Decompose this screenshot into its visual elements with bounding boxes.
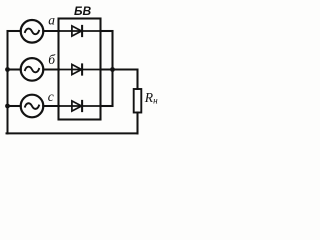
svg-text:с: с: [48, 89, 54, 104]
svg-text:БВ: БВ: [74, 4, 91, 18]
diode VD2: [59, 69, 101, 71]
wire diode VD3 output to cathode bus: [101, 105, 113, 107]
AC source Ga phase a: [21, 20, 44, 43]
wire phase c from bus to source: [8, 105, 21, 107]
wire diode VD1 output to cathode bus: [101, 30, 113, 32]
wire left neutral bus: [7, 31, 9, 133]
svg-text:а: а: [48, 12, 55, 27]
svg-text:б: б: [48, 52, 56, 67]
svg-text:Rн: Rн: [144, 90, 158, 106]
rectifier block BV box: [59, 19, 101, 120]
wire resistor bottom lead: [136, 113, 138, 134]
wire source b to block: [43, 68, 59, 70]
AC source Gb phase b: [21, 58, 44, 81]
wire source c to block: [43, 105, 59, 107]
diode VD3: [59, 105, 101, 107]
wire phase a from bus to source: [8, 30, 21, 32]
node junction on bus phase c: [5, 104, 10, 109]
wire phase b from bus to source: [8, 68, 21, 70]
wire output to load: [101, 70, 138, 90]
wire cathode bus vertical: [111, 31, 113, 106]
resistor Rn load: [134, 89, 142, 113]
node junction on bus phase b: [5, 67, 10, 72]
wire bottom return: [7, 132, 138, 134]
node junction cathode bus: [110, 67, 115, 72]
AC source Gc phase c: [21, 95, 44, 118]
wire source a to block: [43, 30, 59, 32]
diode VD1: [59, 30, 101, 32]
